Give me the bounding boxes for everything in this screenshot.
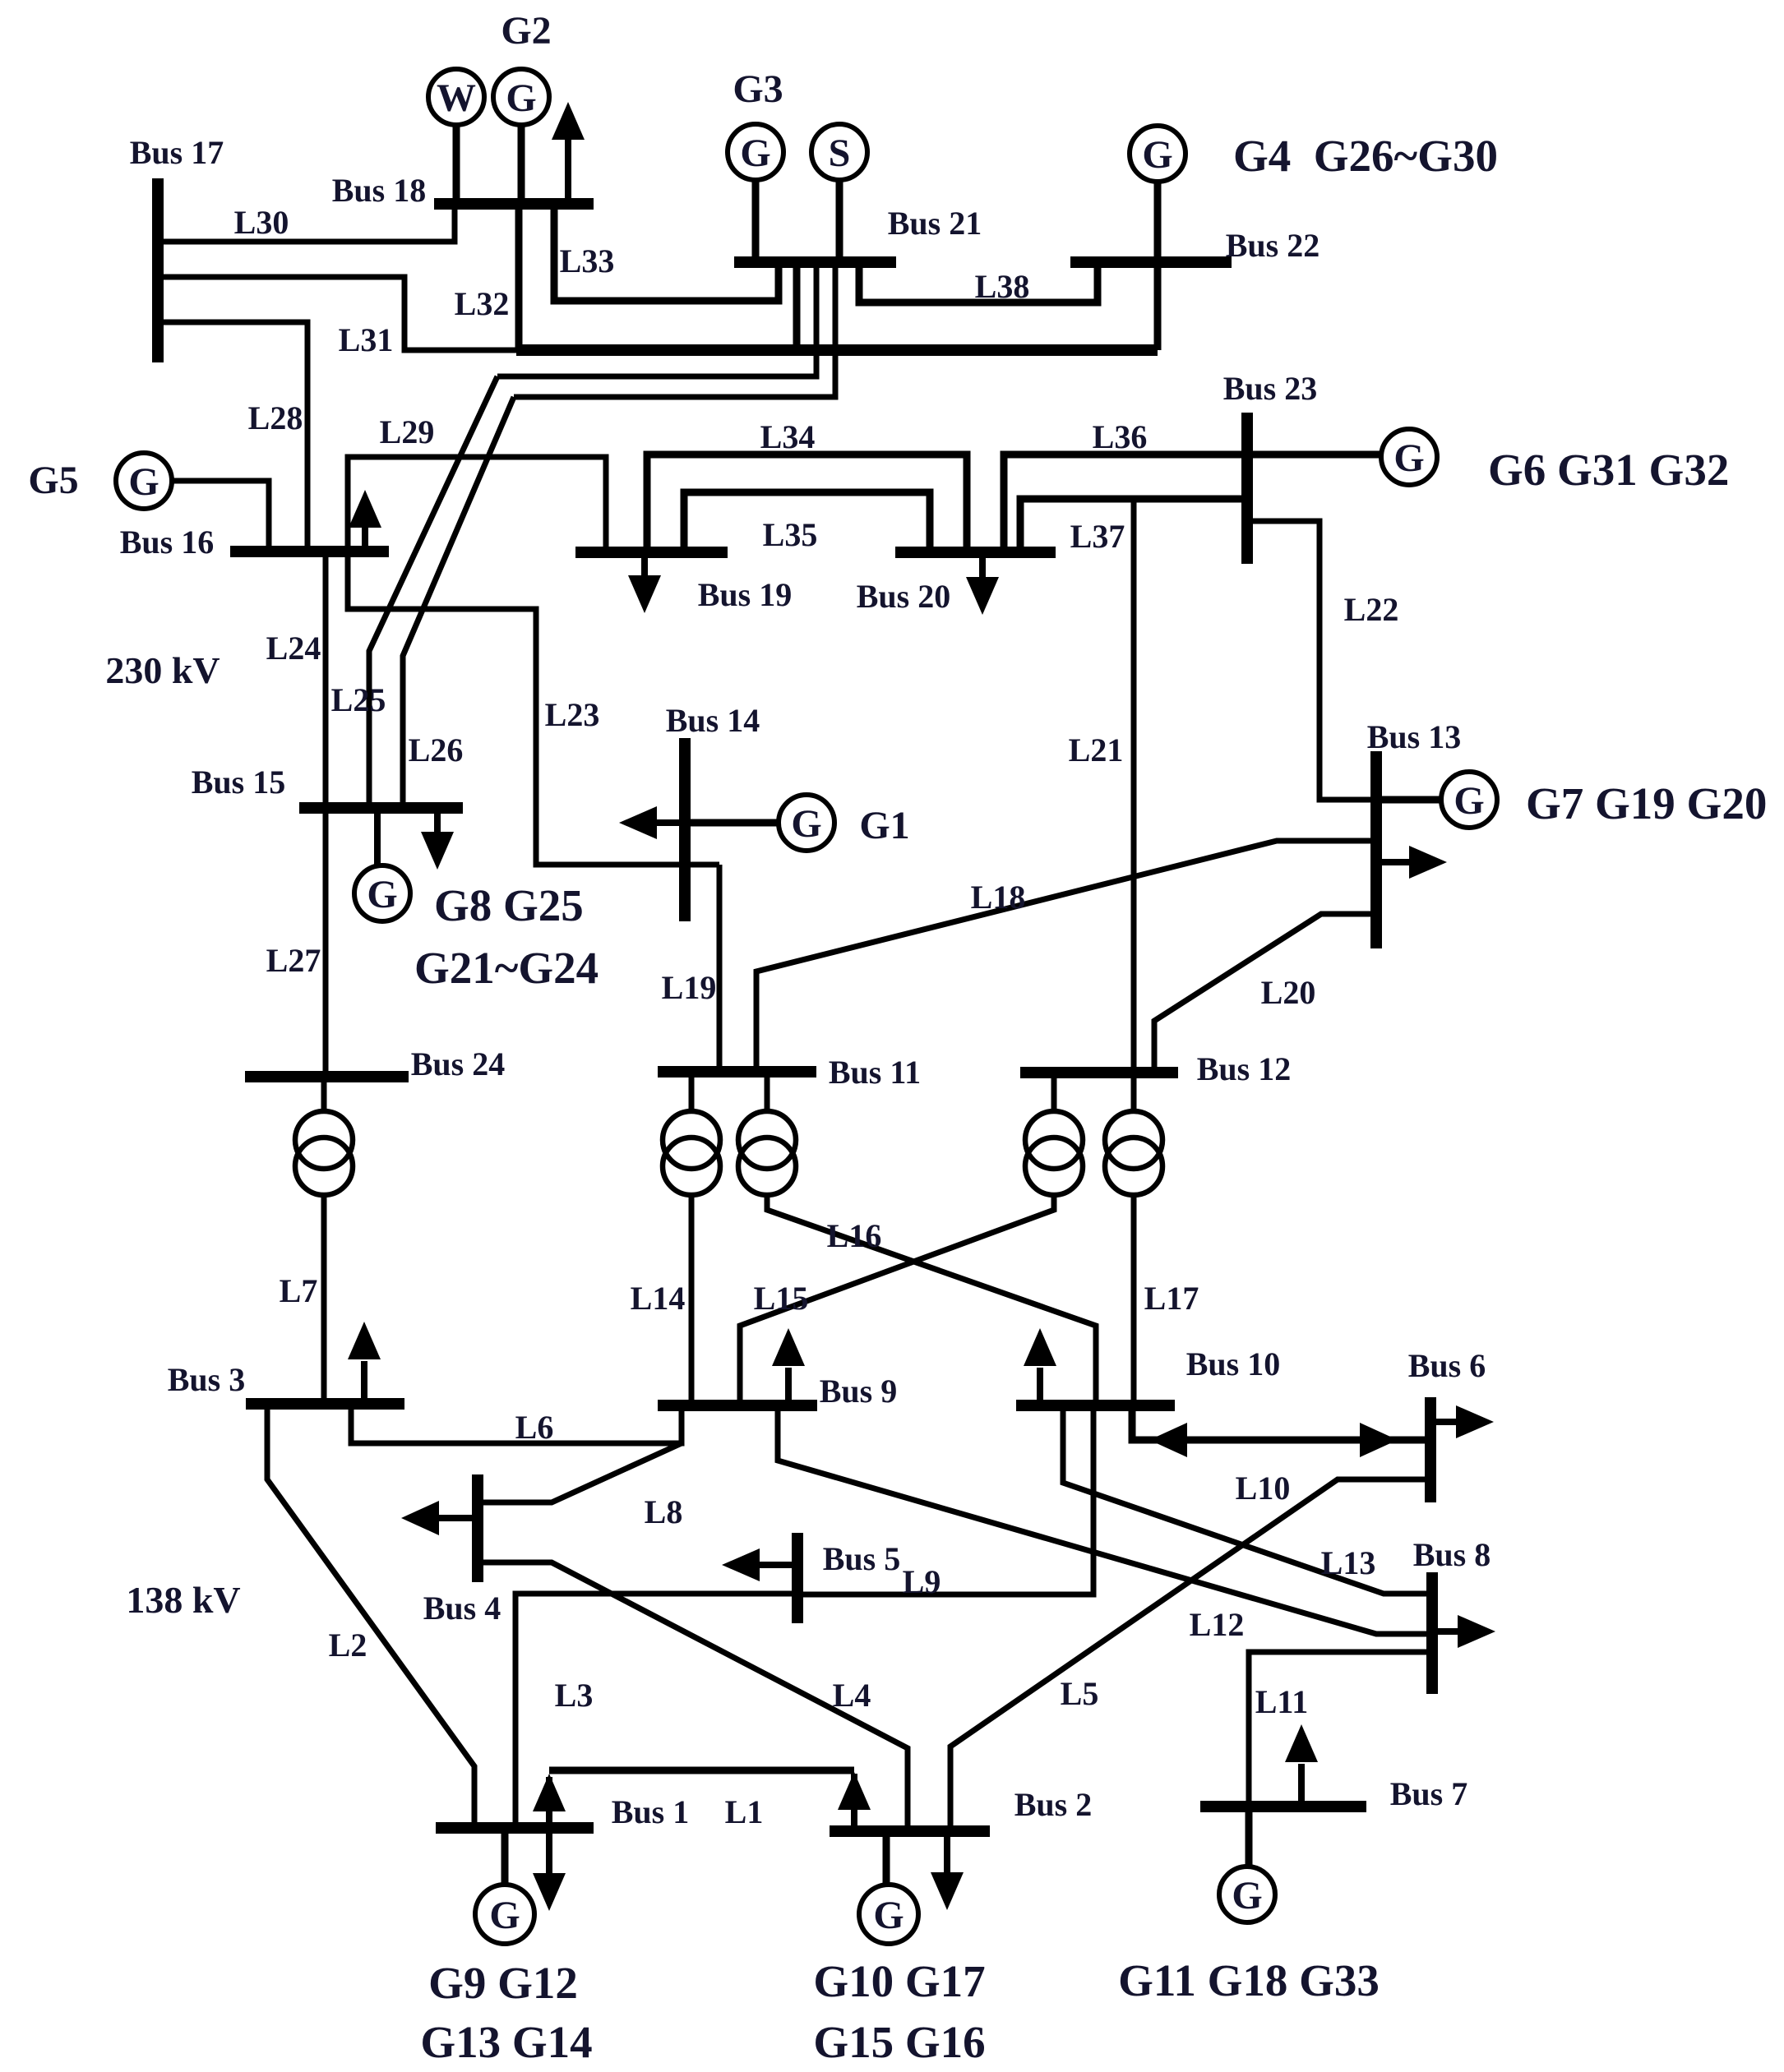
generator G6 circle [1381, 429, 1437, 485]
wire L14 T2-Bus9 [689, 1195, 695, 1405]
bus 1 flow arrow up [546, 1777, 552, 1878]
svg-text:G21~G24: G21~G24 [414, 943, 599, 993]
svg-text:Bus 16: Bus 16 [120, 524, 215, 561]
svg-text:L10: L10 [1236, 1470, 1291, 1507]
bus 2 load arrow [944, 1831, 950, 1874]
bus 17 bar [152, 178, 164, 362]
svg-text:L12: L12 [1190, 1606, 1245, 1643]
wire L18 Bus11-Bus13 [756, 841, 1376, 1072]
svg-text:L26: L26 [409, 731, 464, 768]
wire L21 Bus23-Bus12 [1131, 499, 1137, 1073]
wire L38 Bus21-Bus22 [859, 267, 1098, 302]
svg-text:G7 G19 G20: G7 G19 G20 [1526, 778, 1767, 828]
generator G11 stem [1246, 1807, 1253, 1867]
bus 4 load arrow [439, 1515, 478, 1521]
svg-text:G3: G3 [733, 67, 783, 111]
generator G7 circle [1441, 772, 1497, 828]
svg-text:G8 G25: G8 G25 [434, 880, 584, 930]
transformer T5 circles [1105, 1111, 1162, 1169]
transformer T1 circles [295, 1111, 353, 1169]
svg-text:L36: L36 [1093, 418, 1148, 455]
svg-text:G: G [873, 1894, 904, 1937]
bus 18 load arrow [565, 138, 571, 204]
L10 flow arrow right [1360, 1423, 1398, 1457]
svg-text:L35: L35 [763, 516, 818, 553]
generator G2 stem [518, 123, 525, 204]
svg-text:Bus 18: Bus 18 [332, 172, 427, 209]
svg-text:Bus 4: Bus 4 [423, 1590, 501, 1627]
svg-text:Bus 19: Bus 19 [698, 576, 793, 613]
svg-text:Bus 21: Bus 21 [888, 205, 982, 242]
wire L15 T4-Bus9 [740, 1195, 1054, 1405]
bus 7 bar [1200, 1801, 1366, 1812]
svg-text:L13: L13 [1321, 1544, 1376, 1581]
svg-text:G4 G26~G30: G4 G26~G30 [1233, 131, 1498, 181]
bus 3 load arrow [361, 1361, 367, 1404]
generator G11 circle [1219, 1867, 1275, 1922]
bus 6 load arrow [1430, 1419, 1456, 1425]
transformer T3 stem [765, 1072, 770, 1112]
transformer T1 stem [321, 1077, 327, 1112]
svg-text:Bus 2: Bus 2 [1014, 1786, 1093, 1823]
wire Bus22 drop [1154, 262, 1162, 350]
svg-text:L6: L6 [515, 1409, 554, 1446]
svg-text:L9: L9 [903, 1563, 941, 1600]
bus 5 load arrow [760, 1562, 797, 1568]
svg-text:L1: L1 [725, 1793, 764, 1830]
svg-text:L2: L2 [329, 1627, 367, 1664]
wire L7 T1-Bus3 [321, 1195, 327, 1404]
svg-text:L20: L20 [1261, 974, 1316, 1011]
svg-text:Bus 5: Bus 5 [823, 1540, 901, 1577]
bus 13 load arrow [1376, 859, 1411, 865]
svg-text:L16: L16 [827, 1217, 882, 1254]
bus 11 bar [658, 1066, 816, 1078]
condenser S stem [836, 180, 843, 262]
svg-text:G: G [1393, 436, 1424, 480]
svg-text:G15 G16: G15 G16 [813, 2017, 985, 2067]
svg-text:L29: L29 [380, 413, 435, 450]
wire L24 Bus16-Bus15 [323, 551, 329, 808]
svg-text:Bus 22: Bus 22 [1226, 227, 1320, 264]
svg-text:Bus 13: Bus 13 [1367, 718, 1462, 755]
L10 flow arrow left [1149, 1423, 1187, 1457]
svg-text:L4: L4 [833, 1677, 871, 1714]
bus 22 bar [1070, 256, 1232, 268]
generator G8 stem [374, 808, 381, 865]
svg-text:L14: L14 [631, 1280, 686, 1317]
generator G5 circle [116, 453, 172, 509]
wire L32 Bus18 drop [515, 204, 523, 350]
wire L4 Bus4-Bus2 [483, 1562, 908, 1831]
svg-text:L7: L7 [280, 1272, 318, 1309]
svg-text:G: G [1232, 1874, 1262, 1917]
svg-text:L22: L22 [1344, 591, 1399, 628]
generator W stem [453, 123, 460, 204]
generator G10 stem [883, 1831, 890, 1886]
bus 16 load arrow [362, 526, 368, 551]
svg-text:G: G [791, 802, 821, 846]
bus 7 load arrow [1298, 1764, 1305, 1807]
bus 9 load arrow [785, 1368, 792, 1405]
bus 8 bar [1426, 1572, 1438, 1694]
bus 21 stub to trunk [793, 267, 801, 350]
svg-text:L32: L32 [455, 285, 510, 322]
svg-text:L21: L21 [1069, 731, 1124, 768]
svg-text:L19: L19 [662, 969, 717, 1006]
wire L10 Bus10-Bus6 [1132, 1405, 1430, 1440]
bus 9 bar [658, 1400, 817, 1411]
svg-text:L17: L17 [1144, 1280, 1199, 1317]
bus 6 bar [1425, 1397, 1436, 1502]
generator W circle [428, 69, 484, 125]
svg-text:L37: L37 [1070, 518, 1125, 555]
bus 4 bar [472, 1474, 483, 1582]
svg-text:G9 G12: G9 G12 [428, 1958, 578, 2008]
svg-text:Bus 11: Bus 11 [829, 1054, 921, 1091]
svg-text:Bus 1: Bus 1 [612, 1793, 690, 1830]
wire L17 T5-Bus10 [1131, 1195, 1137, 1405]
wire L25 horizontal [497, 267, 816, 376]
svg-text:L31: L31 [339, 321, 394, 358]
svg-text:L11: L11 [1255, 1683, 1308, 1720]
svg-text:Bus 9: Bus 9 [820, 1373, 898, 1410]
bus 19 load arrow [641, 552, 648, 575]
bus 21 bar [734, 256, 896, 268]
svg-text:L27: L27 [266, 942, 321, 979]
svg-text:230 kV: 230 kV [105, 649, 220, 691]
bus 8 load arrow [1432, 1628, 1458, 1635]
generator G1 circle [779, 795, 834, 851]
wire L28 Bus17-Bus16 [158, 322, 307, 551]
bus 20 load arrow [979, 552, 986, 577]
generator G3 circle [728, 124, 783, 180]
bus 10 load arrow [1037, 1368, 1043, 1405]
svg-text:Bus 3: Bus 3 [168, 1361, 246, 1398]
svg-text:L18: L18 [971, 879, 1026, 916]
svg-text:G13 G14: G13 G14 [420, 2017, 592, 2067]
svg-text:G1: G1 [859, 804, 909, 847]
wire L1 Bus1-Bus2 [549, 1767, 854, 1774]
svg-text:Bus 15: Bus 15 [192, 764, 286, 801]
svg-text:W: W [437, 76, 476, 120]
generator G2 circle [493, 69, 549, 125]
wire L6 Bus3-Bus9 [351, 1404, 682, 1443]
wire L26 horizontal [514, 267, 835, 397]
svg-text:G5: G5 [28, 459, 78, 502]
generator G5 link [172, 481, 269, 551]
bus 15 load arrow [434, 808, 441, 832]
svg-text:G: G [367, 873, 397, 916]
generator G7 stem [1376, 796, 1441, 804]
wire L5 Bus2-Bus6 [950, 1479, 1430, 1831]
svg-text:L38: L38 [975, 268, 1030, 305]
wire L36 Bus20-Bus23-G6 [1004, 455, 1381, 552]
svg-text:138 kV: 138 kV [126, 1579, 240, 1621]
bus 3 bar [246, 1398, 404, 1410]
svg-text:G: G [506, 76, 536, 120]
wire L12 Bus9-Bus8 [778, 1405, 1432, 1634]
bus 24 bar [245, 1071, 409, 1082]
svg-text:Bus 24: Bus 24 [411, 1045, 506, 1082]
transformer T3 circles [738, 1111, 796, 1169]
generator G8 circle [354, 865, 410, 921]
transformer T5 stem [1131, 1073, 1137, 1112]
transformer T2 circles [663, 1111, 720, 1169]
svg-text:G10 G17: G10 G17 [813, 1956, 985, 2006]
bus 15 bar [299, 802, 463, 814]
bus 14 load arrow [655, 819, 685, 826]
wire L19 Bus14-Bus11 [717, 865, 723, 1072]
svg-text:G11 G18 G33: G11 G18 G33 [1118, 1955, 1380, 2005]
wire L29 Bus16-Bus19 [348, 457, 606, 552]
bus 23 bar [1241, 413, 1253, 564]
bus 16 bar [230, 546, 389, 557]
svg-text:L5: L5 [1061, 1675, 1099, 1712]
svg-text:Bus 23: Bus 23 [1223, 370, 1318, 407]
svg-text:Bus 6: Bus 6 [1408, 1347, 1486, 1384]
svg-text:L23: L23 [545, 696, 600, 733]
condenser S circle [811, 124, 867, 180]
svg-text:L30: L30 [234, 204, 289, 241]
svg-text:L3: L3 [555, 1677, 594, 1714]
bus 1 bar [436, 1822, 594, 1834]
generator G4 circle [1130, 126, 1185, 182]
bus 1 load arrow down [533, 1873, 566, 1911]
wire L26 diagonal [403, 397, 514, 808]
bus 20 bar [895, 547, 1056, 558]
svg-text:L15: L15 [754, 1280, 809, 1317]
wire L33 Bus18-Bus21 [554, 204, 779, 301]
transformer T4 stem [1051, 1073, 1057, 1112]
svg-text:L25: L25 [331, 681, 386, 718]
wire L31 Bus17 link [158, 277, 516, 350]
svg-text:S: S [829, 132, 851, 175]
wire L2 Bus3-Bus1 [267, 1404, 474, 1828]
bus 19 bar [575, 547, 728, 558]
bus 13 bar [1370, 751, 1382, 948]
wire L23 Bus16-Bus14 [348, 551, 719, 865]
svg-text:G: G [128, 460, 159, 504]
wire L20 Bus12-Bus13 [1154, 914, 1376, 1073]
wire L16 T3-Bus10 [767, 1195, 1096, 1405]
svg-text:Bus 17: Bus 17 [130, 134, 224, 171]
transformer T2 stem [689, 1072, 695, 1112]
generator G10 circle [859, 1885, 918, 1944]
svg-text:G: G [1142, 133, 1172, 177]
svg-text:Bus 7: Bus 7 [1390, 1775, 1468, 1812]
svg-text:Bus 14: Bus 14 [666, 702, 760, 739]
svg-text:L34: L34 [760, 418, 816, 455]
bus 12 bar [1020, 1067, 1178, 1078]
wire L11 Bus8-Bus7 [1249, 1652, 1432, 1807]
wire L27 Bus15-Bus24 [323, 808, 329, 1077]
wire L35 Bus19-Bus20 [684, 492, 930, 552]
svg-text:G2: G2 [501, 9, 551, 53]
svg-text:G: G [740, 132, 770, 175]
wire L37 Bus20-Bus23 [1020, 499, 1247, 552]
wire L9 Bus5-Bus10 [802, 1405, 1093, 1594]
svg-text:Bus 20: Bus 20 [857, 578, 951, 615]
wire thick Bus18-Bus22 trunk [516, 344, 1158, 356]
svg-text:G: G [489, 1894, 520, 1937]
svg-text:G: G [1454, 779, 1484, 823]
svg-text:L8: L8 [645, 1493, 683, 1530]
svg-text:G6 G31 G32: G6 G31 G32 [1488, 445, 1729, 495]
bus 18 bar [434, 198, 594, 210]
generator G1 stem [685, 819, 779, 827]
bus 5 bar [792, 1533, 803, 1623]
svg-text:L33: L33 [560, 242, 615, 279]
svg-text:Bus 8: Bus 8 [1413, 1536, 1491, 1573]
svg-text:Bus 12: Bus 12 [1197, 1050, 1292, 1087]
generator G4 stem [1154, 182, 1162, 262]
generator G9 circle [475, 1885, 534, 1944]
L1 drop to bus 2 [851, 1774, 857, 1831]
transformer T4 circles [1025, 1111, 1083, 1169]
generator G3 stem [752, 180, 760, 262]
svg-text:L24: L24 [266, 630, 321, 667]
svg-text:L28: L28 [248, 399, 303, 436]
wire L30 Bus17-Bus18 [158, 204, 455, 242]
bus 10 bar [1016, 1400, 1175, 1411]
wire L3 Bus1-Bus5 [515, 1594, 797, 1828]
wire L8 Bus4-Bus9 [483, 1443, 682, 1502]
bus 14 bar [679, 738, 691, 921]
generator G9 stem [501, 1828, 509, 1885]
svg-text:Bus 10: Bus 10 [1186, 1345, 1281, 1382]
bus 2 bar [830, 1825, 990, 1837]
wire L34 Bus19-Bus20 [647, 455, 967, 552]
wire L22 Bus23-Bus13 [1247, 521, 1376, 800]
wire L25 diagonal [369, 376, 497, 808]
wire L13 Bus10-Bus8 [1063, 1405, 1432, 1594]
